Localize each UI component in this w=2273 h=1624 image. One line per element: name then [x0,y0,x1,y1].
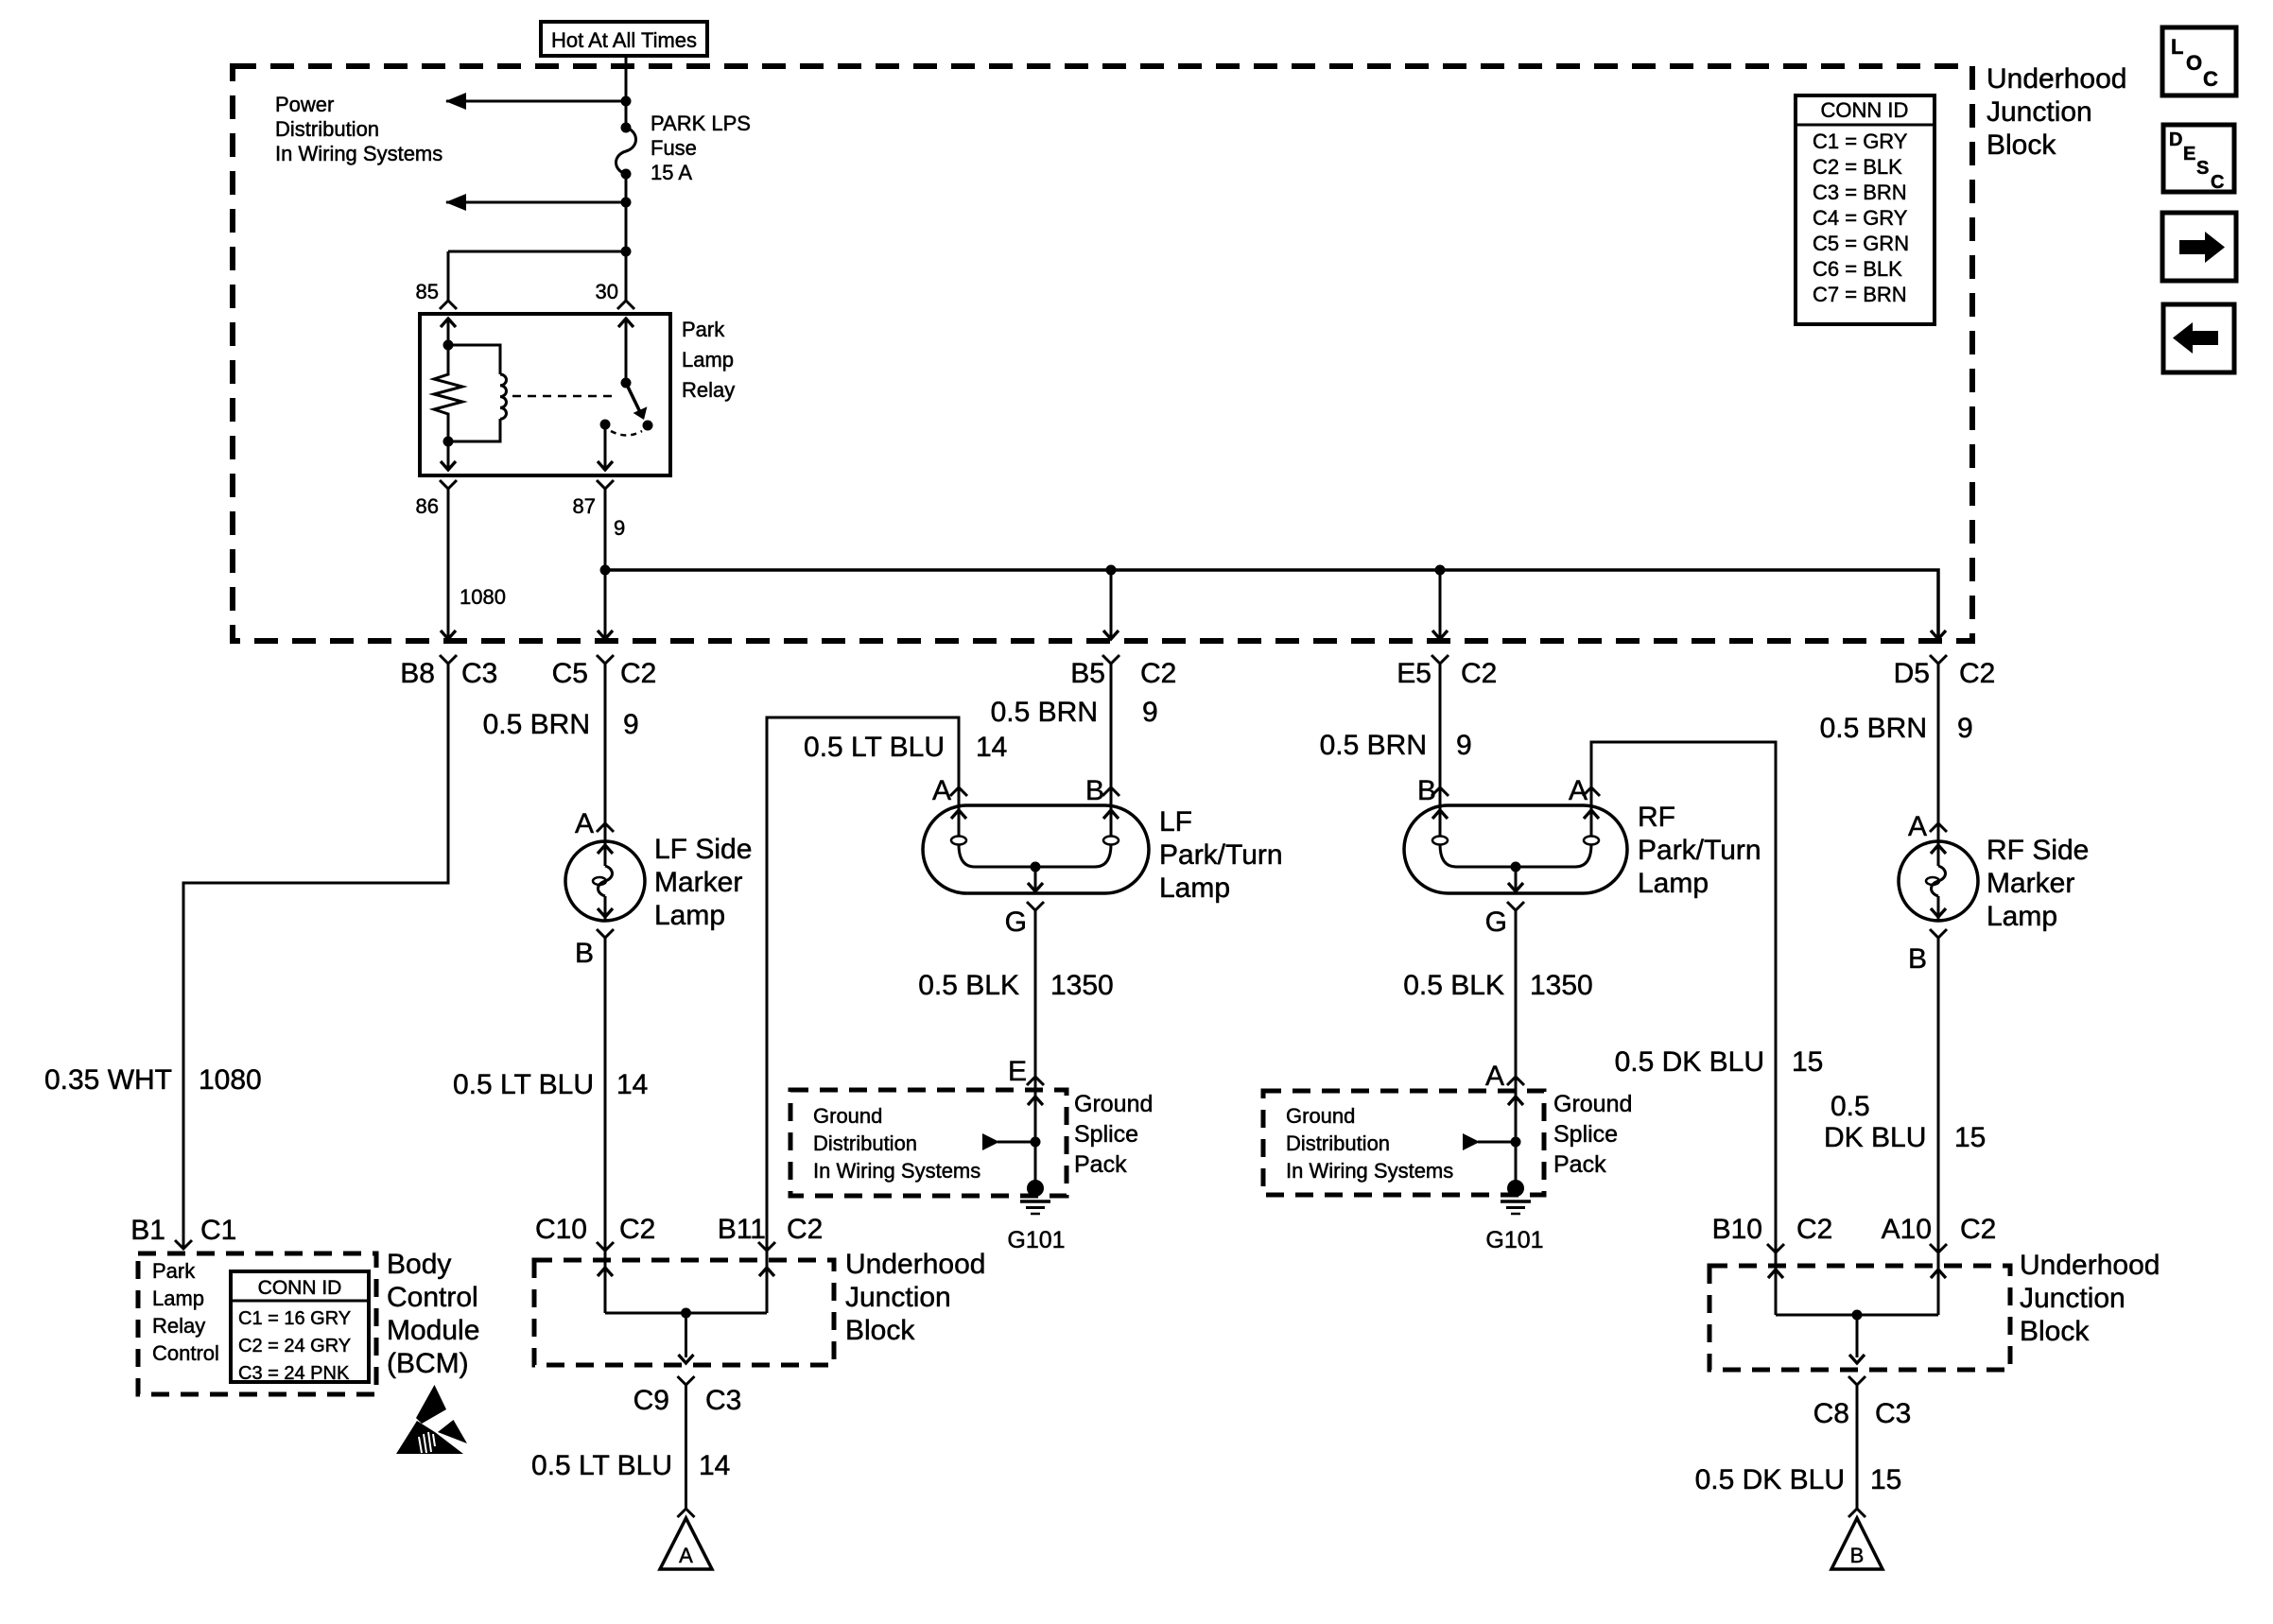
svg-text:C1: C1 [200,1215,236,1246]
svg-text:Fuse: Fuse [651,136,697,160]
svg-text:C2 = 24 GRY: C2 = 24 GRY [238,1336,351,1356]
svg-text:Power: Power [275,93,334,116]
svg-text:Body: Body [387,1249,451,1280]
svg-text:B5: B5 [1070,658,1105,689]
svg-text:9: 9 [614,516,625,540]
svg-text:G101: G101 [1485,1227,1543,1253]
svg-text:C1 = GRY: C1 = GRY [1813,130,1908,153]
svg-text:B: B [1908,943,1927,975]
svg-text:Marker: Marker [1987,868,2074,899]
svg-text:C2: C2 [620,658,656,689]
svg-text:A: A [1485,1061,1504,1092]
svg-text:Park/Turn: Park/Turn [1638,835,1761,866]
svg-text:D: D [2169,130,2182,150]
svg-text:Relay: Relay [152,1314,205,1338]
svg-text:In Wiring Systems: In Wiring Systems [1286,1159,1453,1183]
svg-text:30: 30 [596,280,618,303]
svg-text:0.5 BLK: 0.5 BLK [1403,970,1504,1001]
svg-text:C2: C2 [1140,658,1176,689]
svg-text:C5 = GRN: C5 = GRN [1813,232,1909,255]
svg-text:In Wiring Systems: In Wiring Systems [275,142,442,165]
svg-text:LF Side: LF Side [654,834,752,865]
svg-text:C1 = 16 GRY: C1 = 16 GRY [238,1308,351,1329]
svg-text:Lamp: Lamp [654,900,725,931]
svg-text:Block: Block [1987,130,2056,161]
svg-text:15: 15 [1954,1122,1986,1153]
svg-text:DK BLU: DK BLU [1824,1122,1926,1153]
svg-text:Park/Turn: Park/Turn [1159,839,1283,871]
svg-text:Marker: Marker [654,867,742,898]
svg-text:0.5 BRN: 0.5 BRN [1320,730,1427,761]
svg-text:Block: Block [2020,1316,2090,1347]
svg-text:C3: C3 [705,1385,741,1416]
svg-text:L: L [2171,35,2183,59]
svg-text:87: 87 [573,494,596,518]
svg-text:Ground: Ground [1286,1104,1355,1128]
svg-text:Splice: Splice [1074,1121,1138,1148]
svg-text:A: A [1908,811,1927,842]
svg-text:Control: Control [152,1341,219,1365]
svg-text:0.5 BLK: 0.5 BLK [918,970,1019,1001]
svg-text:Junction: Junction [2020,1283,2126,1314]
svg-text:C6 = BLK: C6 = BLK [1813,257,1902,281]
svg-text:C3 = 24 PNK: C3 = 24 PNK [238,1363,350,1384]
svg-text:B8: B8 [400,658,435,689]
svg-text:9: 9 [1142,697,1158,728]
svg-text:C3 = BRN: C3 = BRN [1813,181,1907,204]
svg-text:C2 = BLK: C2 = BLK [1813,155,1902,179]
svg-text:Lamp: Lamp [682,348,734,371]
svg-text:B10: B10 [1712,1214,1762,1245]
svg-text:RF Side: RF Side [1987,835,2089,866]
svg-text:Block: Block [845,1315,915,1346]
svg-text:Pack: Pack [1553,1151,1606,1178]
svg-text:Ground: Ground [813,1104,882,1128]
svg-text:Junction: Junction [1987,96,2092,128]
svg-text:Lamp: Lamp [1159,872,1230,904]
svg-text:Distribution: Distribution [275,117,379,141]
svg-text:PARK LPS: PARK LPS [651,112,751,135]
svg-text:C: C [2203,67,2218,91]
svg-text:In Wiring Systems: In Wiring Systems [813,1159,980,1183]
svg-text:O: O [2186,51,2202,75]
svg-text:Splice: Splice [1553,1121,1618,1148]
svg-text:Underhood: Underhood [1987,63,2126,95]
svg-text:E: E [1008,1056,1027,1087]
svg-text:15 A: 15 A [651,161,692,184]
svg-text:0.5: 0.5 [1831,1091,1870,1122]
svg-text:E5: E5 [1397,658,1431,689]
svg-text:CONN ID: CONN ID [1821,98,1909,122]
svg-text:Ground: Ground [1074,1091,1153,1117]
svg-text:RF: RF [1638,802,1675,833]
svg-text:S: S [2196,158,2209,179]
svg-text:0.5 LT BLU: 0.5 LT BLU [804,732,945,763]
svg-text:C2: C2 [1960,1214,1996,1245]
svg-text:C9: C9 [633,1385,669,1416]
svg-text:14: 14 [699,1450,730,1481]
svg-text:15: 15 [1792,1046,1823,1078]
svg-text:B1: B1 [130,1215,165,1246]
svg-text:C3: C3 [1875,1398,1911,1429]
svg-text:14: 14 [976,732,1007,763]
svg-text:0.35 WHT: 0.35 WHT [44,1064,172,1096]
svg-text:A: A [932,775,951,806]
svg-text:Lamp: Lamp [152,1287,204,1310]
svg-text:0.5 BRN: 0.5 BRN [1820,713,1927,744]
svg-text:14: 14 [616,1069,648,1100]
svg-text:B: B [1085,775,1104,806]
svg-text:86: 86 [416,494,439,518]
svg-text:1350: 1350 [1530,970,1593,1001]
svg-text:B: B [1417,775,1436,806]
svg-text:0.5 BRN: 0.5 BRN [991,697,1098,728]
svg-text:Park: Park [682,318,725,341]
svg-text:Hot At All Times: Hot At All Times [551,28,697,52]
svg-text:Distribution: Distribution [1286,1132,1390,1155]
svg-text:Module: Module [387,1315,479,1346]
svg-text:C5: C5 [552,658,588,689]
svg-text:0.5 LT BLU: 0.5 LT BLU [531,1450,672,1481]
svg-text:0.5 LT BLU: 0.5 LT BLU [453,1069,594,1100]
svg-text:0.5 DK BLU: 0.5 DK BLU [1695,1464,1845,1495]
svg-text:Junction: Junction [845,1282,951,1313]
svg-text:A: A [1569,775,1588,806]
svg-text:85: 85 [416,280,439,303]
svg-text:0.5 DK BLU: 0.5 DK BLU [1615,1046,1764,1078]
svg-text:1080: 1080 [199,1064,262,1096]
svg-text:G: G [1005,907,1027,938]
svg-text:1080: 1080 [460,585,506,609]
svg-text:9: 9 [623,709,639,740]
svg-text:C2: C2 [1461,658,1497,689]
svg-text:C4 = GRY: C4 = GRY [1813,206,1908,230]
svg-text:C8: C8 [1813,1398,1849,1429]
svg-text:(BCM): (BCM) [387,1348,469,1379]
svg-text:C10: C10 [535,1214,587,1245]
svg-text:Ground: Ground [1553,1091,1632,1117]
svg-text:0.5 BRN: 0.5 BRN [483,709,590,740]
svg-text:G101: G101 [1007,1227,1065,1253]
svg-text:1350: 1350 [1050,970,1114,1001]
svg-text:G: G [1485,907,1507,938]
svg-text:A: A [679,1544,693,1567]
svg-text:C: C [2211,172,2224,193]
svg-text:9: 9 [1957,713,1973,744]
svg-text:LF: LF [1159,806,1192,838]
svg-text:Lamp: Lamp [1638,868,1709,899]
svg-text:15: 15 [1870,1464,1901,1495]
svg-text:C7 = BRN: C7 = BRN [1813,283,1907,306]
svg-text:Lamp: Lamp [1987,901,2057,932]
svg-text:C2: C2 [619,1214,655,1245]
svg-text:C3: C3 [461,658,497,689]
svg-text:C2: C2 [1796,1214,1832,1245]
svg-text:CONN ID: CONN ID [258,1277,342,1299]
svg-text:9: 9 [1456,730,1472,761]
svg-text:C2: C2 [787,1214,823,1245]
svg-text:E: E [2183,144,2195,164]
svg-text:C2: C2 [1959,658,1995,689]
svg-text:Underhood: Underhood [2020,1250,2160,1281]
svg-text:Underhood: Underhood [845,1249,985,1280]
svg-text:Relay: Relay [682,378,735,402]
svg-text:Park: Park [152,1259,196,1283]
svg-text:A10: A10 [1882,1214,1932,1245]
svg-text:B11: B11 [718,1214,766,1245]
svg-text:Control: Control [387,1282,478,1313]
svg-text:Distribution: Distribution [813,1132,917,1155]
svg-text:B: B [1850,1544,1865,1567]
svg-text:A: A [575,808,594,839]
svg-text:Pack: Pack [1074,1151,1127,1178]
svg-text:D5: D5 [1894,658,1930,689]
svg-text:B: B [575,938,594,969]
